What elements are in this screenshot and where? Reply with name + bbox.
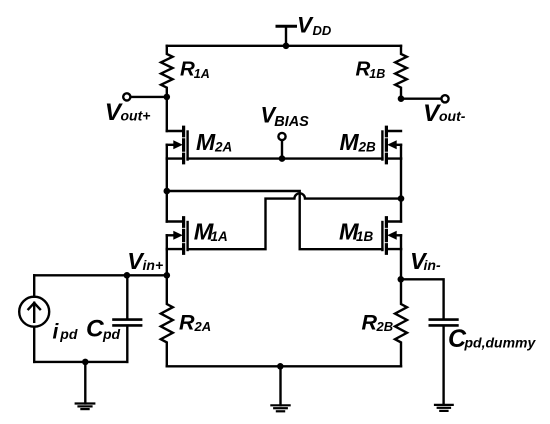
label Vin- [410, 248, 441, 274]
svg-text:out+: out+ [121, 108, 151, 124]
node bottom left ground junction [82, 359, 89, 366]
terminal VBIAS [278, 133, 285, 162]
svg-text:1B: 1B [369, 67, 385, 81]
node right cascode junction [398, 195, 405, 202]
capacitor Cpd [114, 275, 142, 362]
resistor R2B [395, 279, 407, 366]
resistor R1A [161, 46, 173, 97]
label R2A [179, 311, 211, 335]
label M1B [339, 218, 374, 244]
wire Vin- to Cpd,dummy [401, 279, 444, 318]
label Cpd,dummy [448, 325, 536, 353]
node Vout- junction [398, 95, 405, 102]
svg-text:2B: 2B [358, 140, 377, 155]
node bottom rail ground junction [277, 363, 284, 370]
svg-text:1A: 1A [211, 229, 228, 244]
svg-text:R: R [356, 58, 371, 81]
svg-text:R: R [180, 58, 195, 81]
terminal Vout- [441, 95, 448, 102]
resistor R2A [161, 275, 173, 366]
label Vin+ [127, 248, 163, 274]
wire M2A source to M1A drain [166, 159, 168, 222]
wire cross-couple right node to M1A gate (with hop) [188, 193, 401, 249]
svg-text:C: C [86, 316, 104, 343]
svg-text:DD: DD [313, 23, 332, 38]
svg-text:R: R [179, 311, 195, 335]
node Vout+ junction [164, 94, 171, 101]
transistor M1A [167, 218, 188, 254]
svg-text:pd: pd [59, 326, 78, 342]
node Cpd top junction [124, 272, 131, 279]
svg-text:M: M [196, 129, 216, 155]
svg-text:in-: in- [424, 257, 441, 273]
svg-text:2A: 2A [194, 319, 212, 334]
node Vin+ junction on main wire [164, 272, 171, 279]
wire bottom left [34, 361, 127, 363]
wire left rail R1A to M2A drain [166, 97, 168, 131]
label M1A [194, 218, 228, 244]
wire M1B source to Vin- node [400, 249, 402, 279]
svg-text:M: M [340, 129, 360, 155]
wire gate bias rail M2A to M2B [188, 157, 383, 159]
label Cpd [86, 316, 121, 343]
current source ipd [19, 275, 49, 362]
transistor M2B [382, 127, 401, 163]
capacitor Cpd,dummy [430, 320, 458, 405]
label VBIAS [261, 103, 310, 131]
svg-text:pd: pd [102, 326, 121, 342]
transistor M1B [382, 218, 401, 254]
wire top rail VDD [167, 45, 401, 47]
label VDD [297, 13, 332, 39]
wire cross-couple left node to M1B gate [167, 191, 383, 249]
label R1A [180, 58, 210, 81]
svg-text:2B: 2B [376, 319, 394, 334]
svg-text:i: i [53, 321, 60, 344]
svg-text:1B: 1B [356, 229, 374, 244]
label ipd [53, 321, 78, 344]
transistor M2A [167, 127, 188, 163]
wire Vout- lead [401, 97, 441, 99]
svg-text:pd,dummy: pd,dummy [464, 334, 537, 350]
svg-text:1A: 1A [194, 67, 210, 81]
ground center [271, 366, 289, 411]
svg-text:R: R [362, 311, 378, 335]
wire Vout+ lead [130, 96, 166, 98]
node left cascode junction [164, 188, 171, 195]
svg-text:in+: in+ [143, 257, 164, 273]
wire M1A source to Vin+ node [166, 249, 168, 275]
ground right [435, 405, 453, 411]
label Vout- [423, 100, 466, 127]
VDD supply symbol [277, 26, 296, 49]
wire M2B source to M1B drain [400, 159, 402, 222]
label R2B [362, 311, 394, 335]
svg-text:V: V [297, 13, 314, 38]
svg-text:BIAS: BIAS [274, 114, 309, 130]
wire bottom rail [167, 365, 401, 367]
wire Vin+ horizontal [34, 274, 167, 276]
label M2A [196, 129, 232, 155]
ground left [76, 362, 95, 409]
label M2B [340, 129, 377, 155]
label R1B [356, 58, 386, 81]
terminal Vout+ [123, 93, 130, 100]
resistor R1B [395, 46, 407, 99]
svg-text:out-: out- [439, 108, 466, 124]
label Vout+ [105, 99, 151, 126]
node Vin- junction [398, 276, 405, 283]
svg-text:2A: 2A [214, 140, 232, 155]
